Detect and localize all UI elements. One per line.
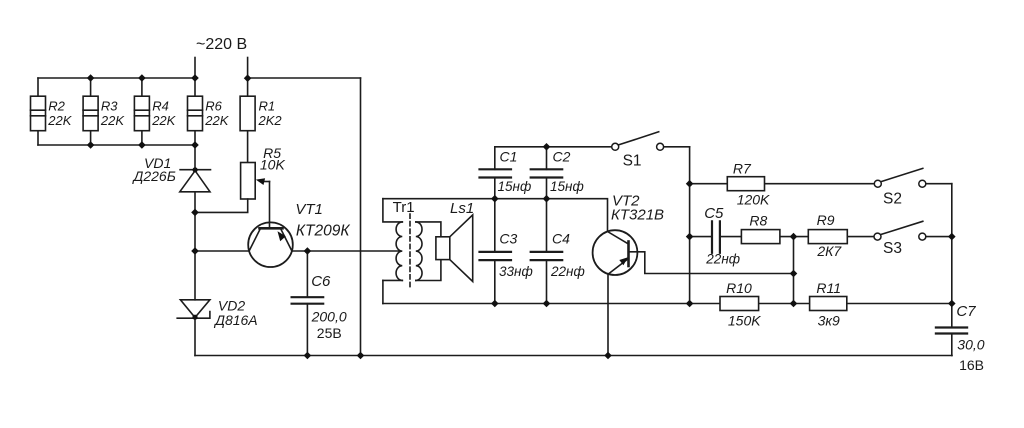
- svg-text:R10: R10: [726, 280, 752, 296]
- svg-text:Ls1: Ls1: [450, 200, 474, 217]
- svg-text:30,0: 30,0: [957, 337, 984, 353]
- svg-text:C3: C3: [499, 231, 517, 247]
- svg-text:R3: R3: [101, 98, 118, 113]
- svg-text:22K: 22K: [47, 113, 72, 128]
- svg-text:R4: R4: [152, 98, 169, 113]
- svg-text:15нф: 15нф: [550, 179, 584, 194]
- svg-text:КТ321В: КТ321В: [611, 207, 664, 224]
- svg-text:Tr1: Tr1: [393, 199, 415, 216]
- svg-text:22нф: 22нф: [550, 264, 585, 279]
- svg-text:Д816А: Д816А: [213, 312, 258, 328]
- svg-text:15нф: 15нф: [498, 179, 532, 194]
- svg-text:C7: C7: [956, 303, 976, 320]
- svg-text:3к9: 3к9: [818, 313, 840, 329]
- svg-text:R8: R8: [749, 213, 767, 229]
- svg-text:VT1: VT1: [295, 201, 323, 218]
- svg-text:R7: R7: [733, 161, 752, 177]
- svg-text:C5: C5: [704, 205, 724, 222]
- svg-text:R1: R1: [259, 98, 276, 113]
- svg-text:10K: 10K: [260, 156, 286, 172]
- svg-text:R11: R11: [816, 280, 841, 296]
- svg-text:Д226Б: Д226Б: [132, 168, 176, 184]
- svg-text:22K: 22K: [151, 113, 176, 128]
- svg-text:C4: C4: [552, 231, 570, 247]
- svg-text:КТ209К: КТ209К: [296, 223, 350, 240]
- svg-text:16В: 16В: [959, 357, 984, 373]
- svg-text:200,0: 200,0: [311, 309, 347, 325]
- svg-text:R6: R6: [205, 98, 222, 113]
- svg-text:S3: S3: [883, 240, 902, 257]
- svg-text:R9: R9: [817, 212, 835, 228]
- svg-text:S2: S2: [883, 191, 902, 208]
- svg-text:33нф: 33нф: [499, 264, 533, 279]
- svg-text:2К7: 2К7: [816, 243, 842, 259]
- svg-text:C1: C1: [500, 149, 518, 165]
- svg-text:25В: 25В: [317, 325, 342, 341]
- svg-text:C2: C2: [553, 149, 571, 165]
- svg-text:S1: S1: [623, 152, 642, 169]
- svg-text:120K: 120K: [737, 192, 770, 208]
- svg-text:2K2: 2K2: [258, 113, 283, 128]
- svg-text:22K: 22K: [204, 113, 229, 128]
- svg-text:C6: C6: [311, 273, 331, 290]
- svg-text:150K: 150K: [728, 312, 761, 328]
- svg-text:~220 В: ~220 В: [196, 36, 247, 53]
- svg-text:22нф: 22нф: [705, 252, 740, 267]
- svg-text:22K: 22K: [100, 113, 125, 128]
- svg-text:R2: R2: [48, 98, 65, 113]
